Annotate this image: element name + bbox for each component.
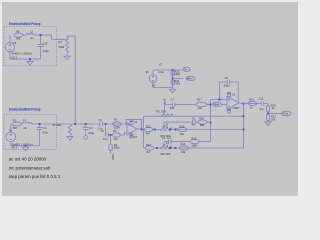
ground pot2 — [67, 135, 73, 140]
svg-text:{pos}: {pos} — [165, 99, 167, 104]
svg-text:10µ: 10µ — [103, 137, 108, 141]
treble row wire — [144, 115, 244, 117]
svg-text:560k: 560k — [114, 146, 120, 150]
svg-text:6k8: 6k8 — [16, 36, 21, 40]
resistor R19 — [248, 98, 257, 110]
divider rail — [172, 70, 174, 88]
svg-text:Vbat: Vbat — [158, 70, 164, 74]
svg-text:V+: V+ — [184, 68, 188, 72]
bass pot B RB2 — [160, 146, 172, 156]
svg-text:R7: R7 — [59, 40, 63, 44]
capacitor C9 — [162, 138, 190, 144]
resistor R4 — [110, 129, 127, 141]
bottom wire pickup1 — [10, 58, 41, 60]
op-amp U1 — [127, 120, 144, 139]
svg-text:VRef: VRef — [111, 154, 115, 160]
svg-text:U1: U1 — [134, 120, 138, 124]
bass pot A row: resistor R12 — [144, 124, 161, 135]
svg-text:200k: 200k — [174, 72, 180, 76]
svg-text:C7: C7 — [171, 98, 175, 102]
svg-text:500k: 500k — [59, 45, 65, 49]
row A continuation: junction and resistor R13 — [169, 125, 243, 136]
capacitor C1 — [37, 125, 49, 146]
svg-text:100p: 100p — [42, 130, 48, 134]
ground battery — [170, 88, 176, 94]
bottom wire pickup2 — [11, 145, 40, 147]
capacitor C3 (series on bus) — [98, 118, 103, 131]
output row from U2 — [241, 102, 268, 104]
svg-text:R6: R6 — [16, 30, 20, 34]
treble pot wiper wire — [163, 105, 165, 114]
svg-text:SINE(0 1 1000Hz): SINE(0 1 1000Hz) — [11, 52, 32, 56]
ground pot1 — [64, 53, 70, 60]
svg-text:10k: 10k — [198, 106, 203, 110]
battery top wire — [153, 69, 183, 74]
svg-text:100k: 100k — [191, 144, 197, 148]
svg-text:C5: C5 — [101, 129, 105, 133]
canvas background — [0, 0, 300, 198]
volume pot 2 R8 — [53, 124, 72, 135]
svg-text:VRef: VRef — [187, 77, 193, 81]
op-amp U1 power flag V+ — [130, 120, 133, 124]
resistor R2 to ground — [109, 135, 120, 154]
row B continuation to output column — [169, 103, 243, 154]
svg-text:R14: R14 — [146, 143, 151, 147]
resistor R6 — [14, 30, 23, 41]
svg-text:R12: R12 — [146, 124, 151, 128]
svg-text:U2: U2 — [232, 92, 236, 96]
inductor L1 — [21, 118, 32, 130]
svg-text:R17: R17 — [197, 98, 202, 102]
svg-text:9V: 9V — [152, 84, 155, 88]
svg-text:4k7: 4k7 — [146, 131, 151, 135]
svg-text:Ersatzschaltbild Pickup: Ersatzschaltbild Pickup — [9, 108, 41, 112]
svg-text:C8: C8 — [225, 76, 229, 80]
svg-text:R8 250k: R8 250k — [53, 125, 62, 127]
resistor R9 — [171, 70, 181, 77]
svg-text:R1: R1 — [13, 119, 17, 123]
long riser wire from pot1 down to mixing bus — [74, 36, 76, 124]
volume pot 1 R7 — [59, 37, 69, 53]
svg-text:C12: C12 — [259, 97, 264, 101]
bass pot A RB1 — [160, 128, 172, 139]
svg-text:{pos}: {pos} — [165, 142, 167, 147]
node junction pickup1 — [35, 34, 67, 39]
net flag VOut — [282, 111, 292, 115]
op-amp U1 power flag V- — [130, 134, 133, 138]
svg-text:100k: 100k — [114, 126, 120, 130]
svg-text:.ac oct 40 20 20000: .ac oct 40 20 20000 — [8, 156, 47, 161]
svg-text:4k7: 4k7 — [146, 150, 151, 154]
svg-text:10k: 10k — [180, 132, 185, 136]
svg-text:R3: R3 — [114, 117, 118, 121]
svg-text:RB2 100k: RB2 100k — [161, 154, 172, 156]
svg-text:V2: V2 — [159, 63, 163, 67]
svg-text:6n8: 6n8 — [170, 106, 175, 110]
svg-text:9V: 9V — [146, 70, 149, 74]
output node U1 — [140, 129, 143, 131]
resistor R3 — [105, 117, 121, 129]
svg-text:100p: 100p — [88, 131, 94, 135]
ground pickup1 — [27, 59, 33, 65]
bass pot B row: resistor R14 — [144, 143, 162, 154]
resistor R18 — [198, 116, 211, 127]
svg-text:C1: C1 — [43, 126, 47, 130]
output column junction dots — [243, 103, 245, 131]
svg-text:200k: 200k — [174, 82, 180, 86]
capacitor C7 — [165, 98, 197, 111]
capacitor C6 — [191, 116, 198, 126]
resistor R10 — [171, 79, 181, 86]
svg-text:10k: 10k — [181, 150, 186, 154]
node junction output divider — [267, 113, 281, 115]
input spine vertical (tone network left) — [143, 116, 145, 148]
capacitor C12 — [259, 97, 265, 111]
ground pickup2 — [22, 146, 28, 151]
svg-text:100p: 100p — [43, 49, 49, 53]
svg-text:R13: R13 — [180, 125, 185, 129]
resistor R20 — [267, 103, 277, 115]
resistor R17 — [196, 98, 211, 111]
svg-text:Ersatzschaltbild Pickup: Ersatzschaltbild Pickup — [9, 22, 41, 26]
ground port C4 — [84, 136, 88, 140]
svg-text:C4: C4 — [89, 126, 93, 130]
svg-text:C18: C18 — [43, 42, 48, 46]
svg-text:R19: R19 — [249, 98, 254, 102]
net flag VRef at U2 +input — [213, 102, 227, 106]
feedback loop U2 — [220, 82, 239, 103]
capacitor C18 — [38, 36, 50, 60]
capacitor C4 to ground — [83, 124, 95, 136]
svg-text:{pos}: {pos} — [165, 123, 167, 128]
svg-text:R18: R18 — [199, 116, 204, 120]
pickup 1 equivalent-circuit box (Ersatzschaltbild Pickup) — [4, 22, 57, 66]
svg-text:R15: R15 — [191, 136, 196, 140]
wire pot1 to long riser — [67, 36, 75, 37]
ground output divider — [265, 122, 271, 126]
svg-text:47µ: 47µ — [260, 107, 265, 111]
svg-text:R16: R16 — [181, 142, 186, 146]
svg-text:.step param pos list 0 0.5 1: .step param pos list 0 0.5 1 — [8, 174, 61, 179]
svg-text:6k8: 6k8 — [13, 126, 18, 130]
svg-text:V5: V5 — [13, 41, 17, 45]
wiper A row to C6 — [164, 121, 193, 123]
svg-text:10k: 10k — [114, 137, 119, 141]
svg-text:VOut: VOut — [282, 112, 288, 116]
svg-text:.inc potentiometer.sub: .inc potentiometer.sub — [8, 165, 52, 170]
treble pot RT1 — [156, 112, 173, 117]
branch riser from bus to C5 row — [105, 124, 107, 135]
voltage source V1 — [6, 124, 16, 146]
op-amp U2 power flag V+ — [228, 92, 231, 96]
bass pot A wiper — [163, 122, 165, 128]
svg-text:VRef: VRef — [213, 103, 219, 107]
bass pot B wiper — [163, 142, 165, 147]
svg-text:2H: 2H — [30, 36, 33, 40]
svg-text:20k: 20k — [271, 118, 276, 122]
divider mid node to VRef flag — [172, 77, 184, 79]
feedback loop U1 — [126, 119, 141, 129]
svg-text:R4: R4 — [113, 129, 117, 133]
op-amp U2 — [227, 92, 241, 110]
capacitor C5 (series) — [101, 129, 113, 141]
resistor R15 — [190, 136, 211, 147]
net flag V+ — [183, 67, 190, 71]
net flag VRef (divider) — [186, 76, 195, 80]
resistor R21 — [267, 115, 277, 122]
inductor L2 — [23, 30, 35, 40]
svg-text:560p: 560p — [224, 83, 230, 87]
battery source V2 — [146, 63, 163, 88]
svg-text:4n7: 4n7 — [191, 123, 196, 127]
mixing bus wire — [67, 123, 127, 125]
svg-text:C6: C6 — [192, 116, 196, 120]
svg-text:68k: 68k — [200, 123, 205, 127]
capacitor C8 in feedback — [224, 76, 230, 87]
op-amp U2 power flag V- — [228, 109, 231, 113]
battery bottom wire — [153, 87, 173, 89]
node junction pickup2 — [32, 123, 67, 125]
resistor R1 — [12, 119, 21, 130]
svg-text:C3: C3 — [99, 118, 103, 122]
svg-text:OP07: OP07 — [233, 106, 240, 110]
voltage source V5 — [5, 35, 16, 59]
pickup 2 equivalent-circuit box (Ersatzschaltbild Pickup) — [4, 108, 57, 150]
summing column wire — [210, 99, 227, 142]
svg-text:2H: 2H — [24, 126, 27, 130]
